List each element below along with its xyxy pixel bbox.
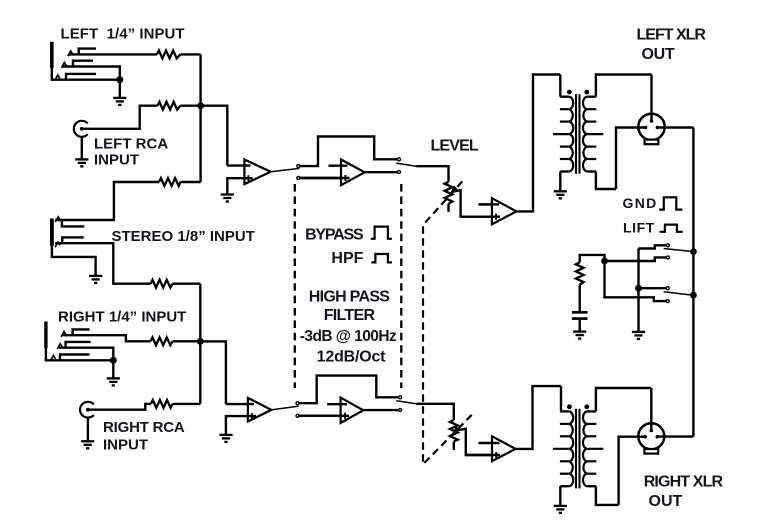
svg-text:RIGHT RCA: RIGHT RCA bbox=[103, 419, 185, 436]
svg-text:LEFT RCA: LEFT RCA bbox=[94, 135, 168, 152]
svg-text:INPUT: INPUT bbox=[103, 436, 148, 453]
svg-text:BYPASS: BYPASS bbox=[305, 227, 364, 244]
svg-text:LEVEL: LEVEL bbox=[431, 138, 479, 155]
svg-text:INPUT: INPUT bbox=[94, 152, 139, 169]
svg-text:LEFT XLR: LEFT XLR bbox=[637, 26, 707, 43]
svg-text:GND: GND bbox=[623, 195, 658, 211]
svg-text:RIGHT 1/4” INPUT: RIGHT 1/4” INPUT bbox=[58, 308, 186, 325]
svg-text:OUT: OUT bbox=[649, 493, 683, 510]
svg-text:OUT: OUT bbox=[642, 46, 675, 63]
svg-text:STEREO 1/8” INPUT: STEREO 1/8” INPUT bbox=[112, 228, 255, 245]
svg-text:FILTER: FILTER bbox=[324, 307, 376, 324]
svg-text:LEFT 1/4” INPUT: LEFT 1/4” INPUT bbox=[61, 26, 185, 43]
svg-text:HIGH PASS: HIGH PASS bbox=[309, 289, 391, 306]
svg-text:12dB/Oct: 12dB/Oct bbox=[317, 348, 387, 365]
svg-text:-3dB @ 100Hz: -3dB @ 100Hz bbox=[300, 328, 397, 345]
svg-text:RIGHT XLR: RIGHT XLR bbox=[644, 474, 724, 491]
svg-text:HPF: HPF bbox=[331, 250, 363, 267]
svg-text:LIFT: LIFT bbox=[623, 219, 655, 235]
